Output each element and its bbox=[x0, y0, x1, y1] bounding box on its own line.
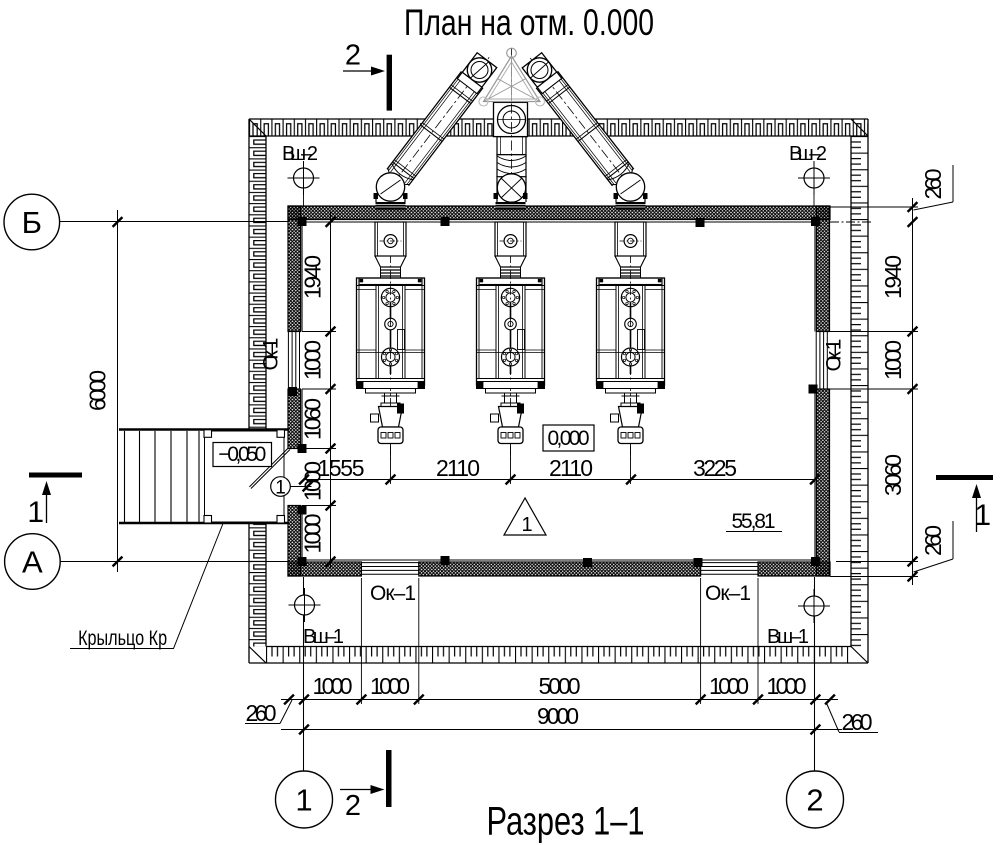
svg-text:1000: 1000 bbox=[300, 340, 326, 380]
svg-text:Ок–1: Ок–1 bbox=[370, 582, 416, 605]
svg-text:5000: 5000 bbox=[539, 673, 581, 699]
svg-text:1000: 1000 bbox=[709, 673, 749, 699]
svg-text:План на отм. 0.000: План на отм. 0.000 bbox=[404, 2, 654, 44]
svg-text:3225: 3225 bbox=[693, 455, 737, 481]
svg-text:2: 2 bbox=[806, 783, 823, 818]
svg-text:2: 2 bbox=[345, 790, 361, 822]
svg-text:2110: 2110 bbox=[436, 455, 480, 481]
svg-text:0,000: 0,000 bbox=[548, 427, 590, 450]
svg-text:3060: 3060 bbox=[880, 454, 906, 496]
svg-text:1000: 1000 bbox=[880, 340, 906, 380]
svg-text:Ок–1: Ок–1 bbox=[705, 582, 751, 605]
svg-text:Б: Б bbox=[22, 205, 42, 240]
svg-text:260: 260 bbox=[920, 525, 946, 556]
svg-text:Вш–1: Вш–1 bbox=[303, 626, 344, 648]
svg-text:−0,050: −0,050 bbox=[218, 443, 266, 466]
svg-text:6000: 6000 bbox=[85, 370, 111, 411]
svg-text:9000: 9000 bbox=[537, 703, 579, 729]
svg-text:260: 260 bbox=[246, 700, 277, 726]
svg-text:1000: 1000 bbox=[300, 514, 326, 554]
svg-text:1: 1 bbox=[974, 499, 991, 532]
svg-text:1: 1 bbox=[27, 496, 44, 529]
svg-text:1000: 1000 bbox=[370, 673, 410, 699]
svg-text:1060: 1060 bbox=[300, 398, 326, 440]
svg-text:2110: 2110 bbox=[549, 455, 593, 481]
svg-text:Вш–2: Вш–2 bbox=[789, 143, 827, 165]
svg-text:1000: 1000 bbox=[300, 461, 326, 501]
svg-text:Разрез 1–1: Разрез 1–1 bbox=[486, 799, 644, 844]
svg-text:Крыльцо Кр: Крыльцо Кр bbox=[78, 626, 167, 650]
svg-text:260: 260 bbox=[920, 169, 946, 200]
svg-text:1: 1 bbox=[275, 478, 286, 499]
svg-text:1: 1 bbox=[521, 514, 532, 536]
svg-text:Вш–2: Вш–2 bbox=[282, 143, 318, 165]
svg-text:55,81: 55,81 bbox=[732, 510, 776, 533]
svg-text:1000: 1000 bbox=[313, 673, 353, 699]
svg-text:1: 1 bbox=[295, 783, 312, 818]
svg-text:260: 260 bbox=[842, 709, 873, 735]
svg-text:А: А bbox=[22, 545, 43, 580]
svg-text:Ок–1: Ок–1 bbox=[823, 339, 846, 372]
svg-text:1000: 1000 bbox=[767, 673, 807, 699]
svg-text:1940: 1940 bbox=[880, 255, 906, 299]
svg-text:2: 2 bbox=[345, 40, 361, 72]
svg-text:1940: 1940 bbox=[300, 255, 326, 299]
svg-text:Вш–1: Вш–1 bbox=[767, 626, 809, 648]
svg-text:Ок–1: Ок–1 bbox=[260, 338, 283, 371]
